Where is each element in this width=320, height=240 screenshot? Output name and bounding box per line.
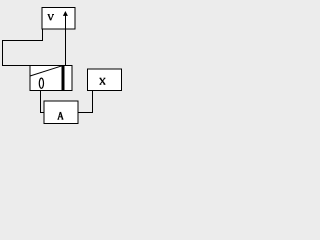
wire stub into A box left side (40, 112, 44, 114)
wire left return: horizontal into 0 box top-left corner (2, 65, 31, 67)
wire left return: horizontal run to left edge (2, 40, 42, 42)
label x (100, 78, 106, 84)
wire left return: stub down from V box bottom-left (42, 29, 44, 41)
wire up into x box bottom (92, 90, 94, 113)
label V (48, 14, 54, 20)
component 0 box (30, 66, 72, 91)
voltage arrow shaft (65, 13, 67, 29)
voltage arrow head (63, 11, 68, 16)
voltage source V box (42, 8, 75, 30)
diagonal line inside 0 box (30, 66, 62, 76)
wire from V source bottom to 0 box top (65, 29, 67, 66)
wire from 0 box bottom down beside ammeter A (40, 90, 42, 113)
background (0, 0, 140, 134)
component x box (88, 69, 122, 91)
label 0 (39, 78, 43, 88)
thick black bar inside 0 box (61, 66, 64, 91)
ammeter A box (44, 101, 78, 124)
label A (57, 112, 63, 119)
wire from A box right side toward x box (78, 112, 93, 114)
wire left return: vertical at left edge (2, 40, 4, 66)
